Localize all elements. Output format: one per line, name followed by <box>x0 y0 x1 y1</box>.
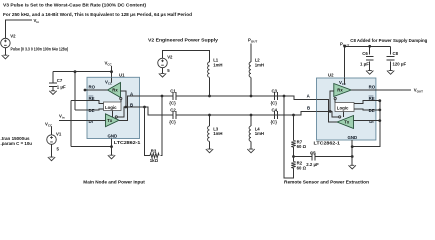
svg-text:.param C = 10u: .param C = 10u <box>1 141 33 146</box>
svg-text:C7: C7 <box>57 78 63 83</box>
svg-text:C2: C2 <box>170 108 176 113</box>
svg-text:U2: U2 <box>328 73 334 78</box>
svg-text:C8: C8 <box>393 51 399 56</box>
svg-text:V3 Pulse Is Set to the Worst-C: V3 Pulse Is Set to the Worst-Case Bit Ra… <box>3 2 147 7</box>
svg-text:LTC2862-1: LTC2862-1 <box>314 141 341 146</box>
svg-text:DE: DE <box>369 108 375 113</box>
svg-text:Logic: Logic <box>337 106 349 111</box>
svg-text:V2: V2 <box>167 55 173 60</box>
svg-text:Pulse (0 3.3 0 100n 100n 64u 1: Pulse (0 3.3 0 100n 100n 64u 128u) <box>11 47 69 52</box>
svg-text:C6: C6 <box>362 51 368 56</box>
svg-text:Remote Sensor and Power Extrac: Remote Sensor and Power Extraction <box>284 180 369 185</box>
svg-text:C3: C3 <box>272 89 278 94</box>
svg-text:C1: C1 <box>170 89 176 94</box>
svg-text:RE: RE <box>89 96 95 101</box>
svg-text:{C}: {C} <box>169 119 176 124</box>
svg-text:60 Ω: 60 Ω <box>297 165 307 170</box>
svg-text:1mH: 1mH <box>255 62 264 67</box>
svg-text:GND: GND <box>348 135 358 140</box>
svg-text:For 250 kHz, and a 16-Bit Word: For 250 kHz, and a 16-Bit Word, This Is … <box>3 12 192 17</box>
svg-text:1 μF: 1 μF <box>360 61 369 66</box>
svg-text:Main Node and Power Input: Main Node and Power Input <box>83 180 145 185</box>
svg-text:V2: V2 <box>10 34 16 39</box>
svg-text:R3: R3 <box>151 148 157 153</box>
svg-text:Logic: Logic <box>105 105 117 110</box>
svg-text:Tx: Tx <box>107 118 113 123</box>
svg-text:U1: U1 <box>119 73 125 78</box>
svg-text:V1: V1 <box>56 131 62 136</box>
svg-text:LTC2862-1: LTC2862-1 <box>114 140 141 145</box>
svg-text:1mH: 1mH <box>255 131 264 136</box>
svg-text:Rx: Rx <box>337 88 343 93</box>
svg-text:C5: C5 <box>310 151 316 156</box>
svg-text:1mH: 1mH <box>213 131 222 136</box>
svg-text:VCC: VCC <box>105 80 112 86</box>
svg-text:C4: C4 <box>272 108 278 113</box>
svg-text:RO: RO <box>369 84 376 89</box>
svg-text:{C}: {C} <box>169 100 176 105</box>
svg-text:1mH: 1mH <box>213 62 222 67</box>
svg-text:1kΩ: 1kΩ <box>150 158 159 163</box>
svg-text:DI: DI <box>369 119 373 124</box>
svg-text:V2 Engineered Power Supply: V2 Engineered Power Supply <box>148 37 219 42</box>
svg-text:2.2 μF: 2.2 μF <box>306 162 319 167</box>
svg-text:RE: RE <box>369 96 375 101</box>
svg-text:RO: RO <box>89 84 96 89</box>
svg-text:120 μF: 120 μF <box>393 61 407 66</box>
svg-text:C8 Added for Power Supply Damp: C8 Added for Power Supply Damping <box>350 38 427 43</box>
svg-text:GND: GND <box>108 133 118 138</box>
svg-text:B: B <box>307 106 310 111</box>
svg-text:Rx: Rx <box>112 88 118 93</box>
svg-text:1 μF: 1 μF <box>57 85 66 90</box>
svg-text:60 Ω: 60 Ω <box>297 144 307 149</box>
svg-text:DI: DI <box>89 119 93 124</box>
svg-text:{C}: {C} <box>271 100 278 105</box>
svg-text:{C}: {C} <box>271 119 278 124</box>
svg-text:DE: DE <box>89 108 95 113</box>
svg-text:Tx: Tx <box>344 120 350 125</box>
